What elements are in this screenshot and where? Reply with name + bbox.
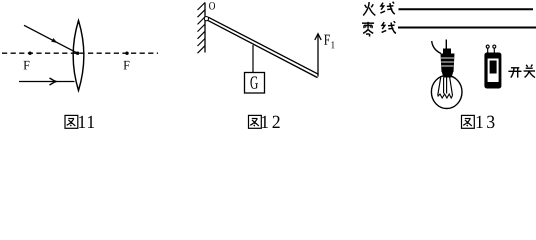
关 xyxy=(526,65,528,67)
label 开关 xyxy=(508,65,535,78)
incident ray 1 (oblique, toward lens centre) xyxy=(24,25,78,53)
neutral wire xyxy=(398,27,536,29)
lamp socket (screw base) xyxy=(441,49,455,78)
wall xyxy=(204,3,206,53)
switch body xyxy=(484,53,501,89)
incident ray 2 (parallel to axis, below) xyxy=(19,78,75,85)
label F1 xyxy=(324,35,330,45)
switch toggle xyxy=(490,61,497,74)
label 火线 (live wire) xyxy=(363,2,395,16)
label G xyxy=(250,76,257,88)
weight G box xyxy=(245,73,265,94)
label F right xyxy=(124,61,130,70)
pivot O xyxy=(204,17,208,21)
线 xyxy=(381,3,384,10)
convex lens L xyxy=(73,21,84,91)
focal point F (left) xyxy=(28,52,31,55)
live wire xyxy=(399,8,534,10)
switch plate xyxy=(488,59,499,83)
bulb filament supports xyxy=(438,78,453,96)
lamp cord (straight lead) xyxy=(445,40,447,51)
label 零线 (neutral wire) xyxy=(362,21,396,36)
caption 图11 xyxy=(65,115,78,128)
optical axis (dashed) xyxy=(2,52,158,54)
optical centre node xyxy=(76,52,79,55)
lamp cord (curved lead) xyxy=(432,41,441,54)
lever rod (two parallel lines) xyxy=(208,17,319,77)
wall hatching xyxy=(198,3,206,54)
label F left xyxy=(24,61,30,70)
label O xyxy=(209,2,215,9)
force F1 arrow xyxy=(315,34,321,77)
bulb glass xyxy=(431,76,462,109)
开 xyxy=(511,67,519,69)
零 xyxy=(362,22,374,24)
string to weight xyxy=(252,45,254,73)
caption 图12 xyxy=(249,115,262,128)
caption 图13 xyxy=(462,115,475,128)
switch terminals xyxy=(486,45,496,52)
filament xyxy=(438,94,453,98)
线 xyxy=(382,22,385,29)
火 xyxy=(365,5,367,8)
focal point F (right) xyxy=(125,52,128,55)
